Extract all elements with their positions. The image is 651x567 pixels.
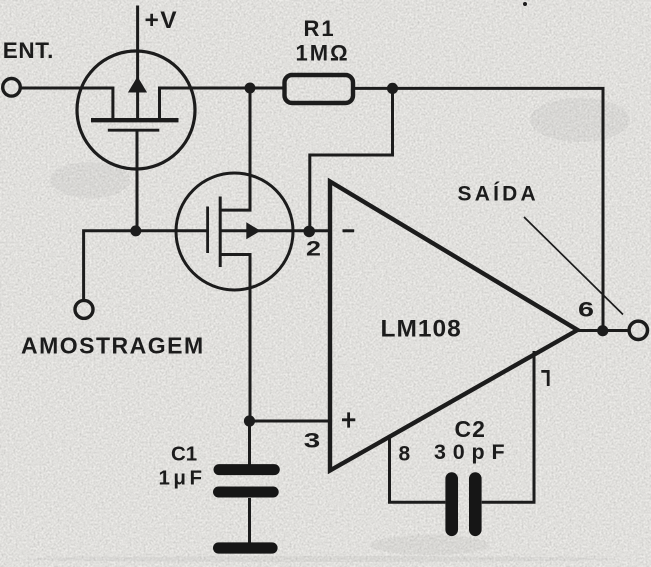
svg-text:SAÍDA: SAÍDA <box>458 182 539 205</box>
svg-text:AMOSTRAGEM: AMOSTRAGEM <box>21 333 205 359</box>
svg-text:1μF: 1μF <box>159 466 206 489</box>
svg-text:+V: +V <box>145 7 179 34</box>
svg-text:LM108: LM108 <box>381 315 462 342</box>
svg-text:R1: R1 <box>304 16 336 41</box>
svg-text:1MΩ: 1MΩ <box>296 41 350 66</box>
svg-text:30pF: 30pF <box>434 440 511 464</box>
svg-text:3: 3 <box>304 429 321 453</box>
svg-text:C2: C2 <box>455 416 486 442</box>
svg-text:ENT.: ENT. <box>3 38 54 63</box>
svg-text:6: 6 <box>578 298 594 322</box>
svg-text:C1: C1 <box>171 443 197 466</box>
svg-text:2: 2 <box>306 237 321 261</box>
svg-text:8: 8 <box>399 443 411 466</box>
